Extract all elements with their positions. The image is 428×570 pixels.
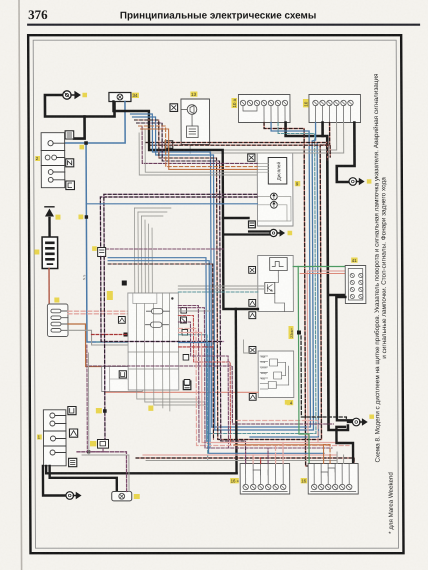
wire blue row A: [108, 258, 207, 443]
schematic outer frame: [28, 35, 403, 553]
control unit U14: [258, 351, 294, 398]
label wire 30: [285, 400, 290, 405]
relay contacts in Z: [145, 309, 169, 328]
wire gray Z right: [178, 310, 210, 312]
wire purple 12B stub: [102, 448, 104, 452]
wire fuse pink 2: [68, 313, 128, 315]
wire orange cluster 1: [139, 126, 258, 167]
connector mid purple: [98, 248, 113, 301]
wire red row A: [108, 264, 213, 440]
pin box feed: [122, 281, 127, 286]
label 1: [37, 435, 42, 440]
wire blue left bundle 1: [131, 114, 212, 427]
pin box D1: [68, 407, 76, 415]
lamp arrow right: [271, 201, 278, 208]
wire thick from loop to switch: [74, 117, 85, 139]
wire red to Z: [92, 334, 129, 336]
label 23kb: [288, 326, 294, 339]
wire teal to Z: [97, 341, 129, 343]
connector X41: [345, 266, 366, 304]
wire maroon row to cluster: [142, 127, 257, 163]
paper grain: [0, 0, 1, 1]
supply arrow +30: [45, 207, 61, 237]
pin box K8 a: [249, 267, 256, 274]
label S: [79, 145, 84, 150]
wire cyan mid row: [178, 291, 258, 293]
wires into X16R: [324, 445, 344, 464]
lamp E2 indicator with ground: [66, 492, 82, 500]
wire purple switch drop: [86, 345, 88, 452]
node purple: [96, 408, 107, 413]
wire gray cluster 2: [139, 133, 257, 175]
wire gray X10 drop 2: [210, 123, 344, 154]
wire pink elbow row: [236, 421, 318, 445]
wire green horiz: [298, 266, 345, 268]
node trunk: [297, 331, 301, 335]
wire maroon mid: [89, 366, 334, 424]
label 16+: [230, 478, 240, 484]
connector C34: [109, 93, 131, 102]
label 10b: [148, 406, 153, 411]
wire fuse pink 1: [68, 310, 128, 312]
wire gray trunk: [207, 123, 316, 434]
label conn purple: [92, 246, 97, 251]
wire purple Z drop 2: [178, 308, 332, 448]
wire purple left long: [101, 257, 224, 342]
wire fuse gray: [68, 330, 128, 345]
switch S1 hazard: [43, 410, 66, 466]
wire thick to cluster 30: [223, 217, 249, 219]
relay K7: [102, 367, 143, 392]
wire red pair right 2: [149, 145, 331, 157]
wire black drop bottom: [235, 309, 238, 473]
wire purple Z drop 1: [178, 306, 199, 444]
wire thick from X41 to ground: [336, 297, 352, 420]
wires into X16L: [246, 443, 284, 464]
node hazard: [87, 450, 90, 453]
connector X16L: [240, 464, 290, 495]
battery B1: [42, 237, 58, 269]
wire orange bottom row: [234, 444, 330, 446]
wire gray B14: [244, 340, 250, 353]
wire battery to fuses: [48, 269, 50, 305]
unit P display cluster: [257, 153, 293, 226]
lamp E1 side repeater: [63, 91, 71, 99]
wire blue vertical N: [86, 143, 128, 342]
wire maroon pair turn lamps 2: [104, 194, 258, 247]
header rule: [27, 24, 420, 26]
wire purple row A: [106, 248, 223, 250]
connector 12B: [90, 440, 109, 449]
label 34: [132, 93, 139, 98]
flasher unit K8: [258, 256, 294, 312]
connector X10: [309, 95, 361, 123]
wire thick to stop lamp: [50, 466, 117, 492]
connector 36: [183, 381, 191, 390]
wire salmon long: [105, 391, 259, 393]
wire thick nest to X16R: [336, 427, 353, 464]
pin box C2: [248, 154, 255, 161]
node on blue: [84, 141, 88, 145]
label dot: [82, 93, 87, 97]
node B-Z: [124, 333, 128, 337]
wire thick long bottom: [46, 466, 236, 473]
wire thick to ground lamp: [43, 466, 66, 496]
wire fuse orange: [68, 324, 102, 367]
wire red Z step: [178, 316, 230, 446]
wire W1 thick loop lamp to connector: [45, 95, 115, 117]
wire purple left bundle into X16L: [137, 123, 246, 464]
wire gray switch drop: [87, 353, 89, 455]
wire blue row cluster: [86, 203, 257, 205]
wire red left bundle: [135, 120, 218, 440]
wire blue trunk 1: [210, 123, 310, 428]
wire purple hazard feed: [77, 452, 127, 492]
display module: [268, 158, 287, 185]
wire red trunk 2: [216, 123, 331, 440]
wire blue row B: [108, 261, 210, 448]
fuse box F: [47, 304, 68, 337]
pin box B: [65, 131, 74, 139]
pin box A1: [69, 429, 77, 437]
junction box Z central: [128, 293, 179, 390]
node marker mid blue: [78, 215, 88, 220]
lamp box E3: [112, 492, 132, 501]
connector X16R: [308, 464, 358, 495]
wire thick right lamp feed: [337, 123, 355, 183]
wire green: [293, 267, 309, 464]
ground G1: [71, 91, 81, 99]
pin box B1: [69, 458, 77, 466]
cluster internal leads: [257, 163, 291, 221]
wire gray mid rows: [178, 286, 265, 289]
page fold shadow line: [19, 0, 22, 570]
pin box U14: [249, 394, 256, 401]
wire pink bottom 2: [143, 454, 336, 456]
wire purple hazard drop: [103, 257, 106, 440]
label 10a: [231, 98, 237, 108]
wire purple hazard bottom: [89, 451, 105, 453]
wire red Z right: [179, 346, 214, 348]
pin box C1: [180, 317, 186, 323]
wire red trunk 1: [264, 123, 349, 467]
lamp E6 ground point: [352, 415, 374, 426]
lamp arrow left: [270, 193, 277, 200]
wire black bundle left L: [113, 102, 257, 310]
wire gray stub K13: [189, 145, 191, 154]
label 16: [301, 478, 307, 484]
connector X10a: [238, 95, 290, 123]
label 9: [295, 181, 300, 186]
pin box A13: [170, 104, 178, 112]
pin box A-Z: [118, 317, 125, 324]
wire blue Z drop: [179, 343, 325, 454]
wire pink Z drop 2: [179, 333, 346, 443]
pin boxes Z right: [181, 308, 190, 386]
wire black dashed to ground: [301, 336, 346, 421]
pin box N: [66, 159, 74, 167]
label 10: [303, 99, 309, 107]
wire blue from C34: [64, 102, 125, 144]
wire purple Z step: [178, 322, 228, 448]
pin box H13: [165, 141, 173, 149]
label 14: [287, 400, 293, 405]
wire black to X41: [329, 294, 346, 296]
switch S2 column stalk: [41, 133, 65, 188]
wire thick stub X10: [321, 123, 324, 137]
label 13: [190, 92, 197, 97]
label 2: [35, 156, 40, 161]
label 41: [351, 258, 357, 263]
wire maroon pair turn lamps 1: [100, 197, 257, 256]
pin box C: [66, 181, 75, 190]
wire pink trunk: [307, 271, 346, 444]
relay K13: [181, 99, 210, 145]
pin box K8 b: [249, 300, 256, 307]
wire pink to X41 b: [300, 273, 345, 275]
label lamp E3: [134, 494, 140, 499]
label battery: [34, 250, 39, 255]
pin box K8 c: [249, 312, 256, 319]
wire gray hazard feed: [82, 455, 129, 492]
wire gray X10 drop 1: [210, 123, 337, 151]
wire orange cluster 2: [141, 129, 258, 169]
pin box D7: [119, 371, 126, 378]
wire red pair right 1: [146, 143, 328, 161]
wire blue left bundle 2: [133, 117, 215, 430]
wire cyan Z right: [179, 335, 208, 461]
wire gray bottom: [146, 460, 337, 462]
wire ground stub: [348, 421, 353, 423]
wire pink Z drop 1: [178, 329, 349, 446]
node dot Z: [171, 297, 173, 299]
wire blue trunk 3: [249, 143, 319, 437]
schematic inner frame: [33, 40, 398, 548]
pin box 30 black: [249, 221, 256, 228]
lamp E5 cluster indicator: [270, 229, 292, 236]
wire thick bus under connectors: [286, 123, 348, 431]
lamp E4 right indicator: [349, 178, 371, 186]
pin box B14: [249, 347, 256, 354]
wire blue trunk 2: [213, 123, 317, 431]
wire thick lamp pair: [223, 232, 270, 235]
wire gray cluster 1: [145, 130, 257, 172]
label fusebox: [54, 298, 59, 303]
wire red bottom long: [136, 458, 354, 464]
